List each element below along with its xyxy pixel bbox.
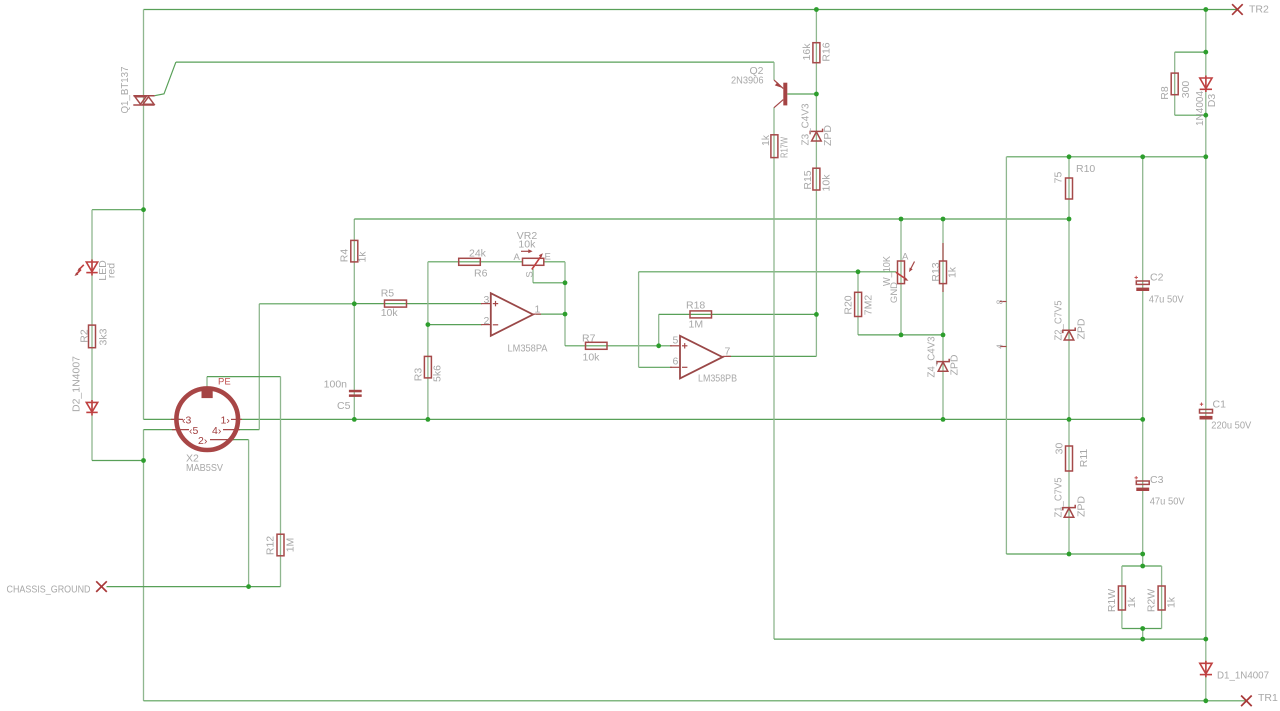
wire R4 branch	[353, 219, 355, 304]
node y639 / R1W R2W	[1140, 637, 1145, 642]
wire VR2 E lead to output column to R7	[544, 261, 565, 263]
node LED branch	[141, 207, 146, 212]
wire R6/R3 vertical	[427, 262, 429, 420]
wire trimmer W_10K column	[900, 219, 902, 335]
wire left vertical lower	[143, 430, 145, 701]
capacitor C2	[1135, 276, 1150, 291]
wire D2 bottom horizontal	[92, 460, 144, 462]
wire R18 loop	[658, 314, 660, 345]
wire Q2 collector / R17W long column	[773, 108, 775, 640]
op-amp power pin 8 stub	[1000, 301, 1007, 303]
svg-text:R2W: R2W	[1146, 589, 1158, 612]
node Q2 base / Z3	[814, 92, 819, 97]
svg-text:Z3_C4V3: Z3_C4V3	[800, 103, 812, 145]
node rail219 / W_10K	[899, 217, 904, 222]
wire R1W/R2W parallel frame	[1122, 565, 1162, 567]
svg-text:R15: R15	[802, 170, 814, 189]
resistor R4	[351, 240, 358, 262]
capacitor C5	[349, 390, 362, 397]
node rail419 / R3	[426, 417, 431, 422]
wire R13/Z4 column	[942, 219, 944, 419]
svg-text:5k6: 5k6	[432, 365, 444, 382]
svg-text:10k: 10k	[821, 174, 833, 192]
wire triac gate to Q2 emitter	[176, 61, 774, 63]
svg-text:LM358PB: LM358PB	[698, 373, 737, 385]
svg-text:10k: 10k	[583, 352, 601, 364]
svg-text:R18: R18	[686, 299, 705, 311]
terminal X chassis ground	[96, 581, 107, 592]
svg-text:ZPD: ZPD	[949, 354, 961, 375]
svg-text:2: 2	[484, 315, 490, 327]
svg-text:1M: 1M	[689, 319, 704, 331]
wire Q2 base	[787, 93, 816, 95]
pin 1 lead	[231, 418, 242, 420]
wire R7 row to op-amp B pin5	[586, 345, 673, 347]
svg-text:10k: 10k	[518, 239, 536, 251]
svg-text:Q1_BT137: Q1_BT137	[119, 66, 131, 113]
node top rail / R16	[814, 7, 819, 12]
node R1W/R2W top	[1140, 564, 1145, 569]
resistor R5	[385, 300, 407, 307]
svg-text:ZPD: ZPD	[822, 125, 834, 146]
resistor R6	[459, 258, 481, 265]
node right top / C2	[1140, 154, 1145, 159]
svg-text:30: 30	[1054, 443, 1066, 455]
node R13 bottom / Z4	[941, 333, 946, 338]
wire LED/R2/D2 branch vertical	[91, 210, 93, 461]
trimmer W_10K body	[898, 261, 905, 284]
svg-text:1: 1	[535, 303, 541, 315]
resistor R2W	[1158, 586, 1165, 610]
resistor R11	[1066, 446, 1073, 471]
svg-text:300: 300	[1180, 81, 1192, 99]
wire VR2 S lead	[532, 269, 534, 283]
svg-text:4: 4	[996, 344, 1005, 349]
node right top / C1 column	[1203, 154, 1208, 159]
svg-text:1k: 1k	[1126, 596, 1138, 608]
node right top / R10	[1067, 154, 1072, 159]
svg-text:1›: 1›	[221, 415, 231, 427]
svg-text:ZPD: ZPD	[1076, 318, 1088, 339]
node rail419 / C5	[352, 417, 357, 422]
node R20 top	[856, 269, 861, 274]
node y554 / C3	[1140, 552, 1145, 557]
node y639 / C1 D1	[1203, 637, 1208, 642]
node rail219 / R10	[1067, 217, 1072, 222]
svg-text:R17W: R17W	[779, 137, 791, 158]
svg-text:5: 5	[673, 335, 679, 347]
wire triac gate stub diagonal	[155, 62, 176, 96]
node rail419 / Z4	[941, 417, 946, 422]
svg-text:TR1: TR1	[1258, 692, 1278, 704]
svg-text:Z4_C4V3: Z4_C4V3	[926, 336, 938, 377]
trimmer VR2 wiper	[532, 253, 543, 269]
resistor R8	[1171, 73, 1178, 95]
node R18/R15/output B	[814, 312, 819, 317]
svg-text:R3: R3	[413, 368, 425, 382]
svg-text:1N4004: 1N4004	[1194, 91, 1206, 126]
wire R20 branch	[857, 272, 859, 335]
pin 5 lead	[172, 429, 189, 431]
svg-text:MAB5SV: MAB5SV	[186, 462, 223, 474]
wire DIN pin3	[144, 418, 181, 420]
svg-text:R7: R7	[582, 332, 596, 344]
svg-text:75: 75	[1053, 172, 1065, 184]
svg-text:A: A	[514, 252, 521, 263]
resistor R13	[940, 243, 947, 292]
wire top rail TR2 net	[144, 9, 1238, 11]
svg-text:3: 3	[484, 294, 490, 306]
svg-text:6: 6	[673, 356, 679, 368]
node bottom rail / D1	[1203, 698, 1208, 703]
svg-text:red: red	[106, 263, 118, 278]
diode D1_1N4007	[1200, 661, 1212, 678]
zener Z2_C7V5	[1063, 328, 1075, 341]
wire C2/C3 column	[1142, 157, 1144, 566]
W_10K set arrow	[909, 262, 915, 273]
wire R5 row to op-amp pin3	[354, 303, 482, 305]
trimmer W_10K wiper	[896, 272, 909, 281]
svg-text:Z2_C7V5: Z2_C7V5	[1053, 300, 1065, 340]
wire D3 column	[1205, 10, 1207, 157]
connector X2 MAB5SV circle	[176, 388, 238, 450]
wire op-amp B pin6 loop	[639, 366, 672, 368]
transistor Q2 2N3906	[774, 80, 787, 108]
svg-text:D3: D3	[1206, 94, 1218, 108]
svg-text:A: A	[902, 252, 909, 263]
svg-text:2›: 2›	[198, 435, 208, 447]
wire DIN pin2 to chassis	[230, 439, 249, 441]
node rail219 / R13	[941, 217, 946, 222]
resistor R1W	[1118, 586, 1125, 610]
svg-text:C2: C2	[1150, 272, 1164, 284]
LED red	[75, 260, 98, 277]
wire DIN pin5	[144, 429, 181, 431]
svg-text:D1_1N4007: D1_1N4007	[1217, 670, 1269, 682]
wire R6 feedback row	[428, 261, 523, 263]
svg-text:7: 7	[725, 346, 731, 358]
resistor R12	[277, 534, 284, 556]
wire PE to R12	[206, 377, 208, 388]
wire C5 branch	[353, 304, 355, 420]
svg-text:220u 50V: 220u 50V	[1211, 420, 1251, 432]
wire op-amp A output	[536, 313, 565, 315]
op-amp power pin 4 stub	[1000, 346, 1007, 348]
svg-text:100n: 100n	[324, 379, 348, 391]
wire DIN pin4 riser	[238, 429, 259, 431]
svg-text:R20: R20	[843, 295, 855, 314]
svg-text:R4: R4	[339, 249, 351, 263]
node op-amp A output	[563, 312, 568, 317]
svg-text:R5: R5	[381, 288, 395, 300]
zener Z1_C7V5	[1063, 505, 1075, 518]
wire left vertical upper (triac anode column)	[143, 10, 145, 420]
svg-text:1k: 1k	[357, 251, 369, 263]
triac Q1_BT137	[133, 96, 154, 105]
svg-text:ZPD: ZPD	[1076, 496, 1088, 517]
svg-text:10k: 10k	[381, 307, 399, 319]
svg-text:R1W: R1W	[1106, 589, 1118, 612]
zener Z3_C4V3	[810, 129, 822, 141]
node D3 bottom / R8	[1203, 113, 1208, 118]
node rail419 / C2 C3	[1140, 417, 1145, 422]
svg-text:C5: C5	[337, 400, 351, 412]
resistor R16	[813, 43, 820, 63]
pin 2 lead	[210, 439, 234, 441]
diode D3 1N4004	[1200, 76, 1212, 93]
node R4/R5/C5	[352, 301, 357, 306]
svg-text:24k: 24k	[469, 247, 487, 259]
svg-text:16k: 16k	[801, 43, 813, 61]
svg-text:3k3: 3k3	[98, 328, 110, 345]
op-amp U1A LM358PA	[481, 293, 541, 336]
svg-text:PE: PE	[218, 377, 231, 388]
svg-text:8: 8	[996, 299, 1005, 304]
node VR2 E+S	[563, 280, 568, 285]
op-amp U1B LM358PB	[670, 336, 731, 379]
zener Z4_C4V3	[937, 359, 949, 371]
svg-text:CHASSIS_GROUND: CHASSIS_GROUND	[7, 584, 91, 596]
svg-text:1k: 1k	[760, 134, 772, 146]
svg-text:47u 50V: 47u 50V	[1149, 294, 1184, 306]
wire right block left vertical	[1005, 157, 1007, 554]
capacitor C3	[1135, 476, 1150, 491]
svg-text:D2_1N4007: D2_1N4007	[71, 356, 83, 412]
resistor R2	[89, 325, 96, 348]
resistor R3	[424, 356, 431, 378]
wire bottom rail TR1 net	[144, 700, 1247, 702]
connector X2 PE square	[202, 387, 213, 398]
wire supply rail y219	[354, 218, 1069, 220]
node R1W/R2W bottom	[1140, 626, 1145, 631]
terminal X TR1	[1241, 696, 1252, 707]
wire R10/Z2/R11/Z1 column	[1068, 157, 1070, 554]
wire C1/D1 column	[1205, 157, 1207, 701]
resistor R18	[690, 311, 712, 318]
svg-text:R13: R13	[930, 262, 942, 281]
node R7/R18/pin5	[656, 343, 661, 348]
svg-text:E: E	[545, 251, 551, 262]
pin 4 lead	[223, 429, 240, 431]
svg-text:LM358PA: LM358PA	[508, 343, 548, 355]
diode D2_1N4007	[86, 400, 97, 416]
wire op-amp pin2 row	[428, 324, 482, 326]
svg-text:1k: 1k	[947, 266, 959, 278]
node top rail / D3 column	[1203, 7, 1208, 12]
svg-text:W_10K: W_10K	[881, 256, 893, 286]
svg-text:R8: R8	[1159, 86, 1171, 100]
pin 3 lead	[171, 418, 183, 420]
svg-text:4›: 4›	[212, 425, 222, 437]
resistor R20	[855, 292, 862, 316]
resistor R7	[586, 342, 608, 349]
resistor R17W	[771, 135, 778, 158]
node D2 branch	[141, 458, 146, 463]
wire R1W/R2W bottom stub	[1142, 629, 1144, 640]
trimmer VR2 body	[523, 258, 544, 265]
svg-text:R2: R2	[79, 329, 91, 343]
svg-text:1k: 1k	[1166, 596, 1178, 608]
node chassis / pin2	[246, 584, 251, 589]
svg-text:R16: R16	[821, 42, 833, 61]
VR2 set arrow	[521, 249, 533, 253]
svg-text:R12: R12	[265, 536, 277, 555]
terminal X TR2	[1232, 4, 1243, 15]
wire right block bottom y554	[1006, 553, 1142, 555]
capacitor C1	[1200, 403, 1213, 420]
svg-text:R11: R11	[1078, 449, 1090, 468]
node R6/pin2/R3	[426, 322, 431, 327]
svg-text:GND: GND	[889, 282, 900, 303]
wire right block top	[1006, 156, 1205, 158]
svg-text:1M: 1M	[285, 538, 297, 553]
wire ground rail y419 from DIN pin1	[238, 418, 1143, 420]
svg-text:47u 50V: 47u 50V	[1150, 496, 1185, 508]
svg-text:S: S	[525, 271, 536, 277]
svg-text:R10: R10	[1076, 163, 1095, 175]
node D3 top / R8	[1203, 50, 1208, 55]
node rail419 / Z2 R11	[1067, 417, 1072, 422]
svg-text:2N3906: 2N3906	[731, 75, 764, 87]
resistor R15	[813, 168, 820, 190]
svg-text:C3: C3	[1150, 474, 1164, 486]
wire op-amp B output to R15/R16 column	[726, 355, 816, 357]
svg-text:R6: R6	[474, 268, 488, 280]
resistor R10	[1066, 178, 1073, 199]
svg-text:7M2: 7M2	[863, 295, 875, 316]
wire R8 parallel branch	[1175, 51, 1206, 53]
svg-text:Z1_C7V5: Z1_C7V5	[1053, 477, 1065, 517]
svg-text:TR2: TR2	[1249, 4, 1269, 16]
svg-text:C1: C1	[1213, 398, 1227, 410]
node y554 / Z1	[1067, 552, 1072, 557]
wire LED branch horizontal	[92, 209, 144, 211]
wire chassis ground line	[107, 586, 281, 588]
node W_10K bottom	[899, 333, 904, 338]
